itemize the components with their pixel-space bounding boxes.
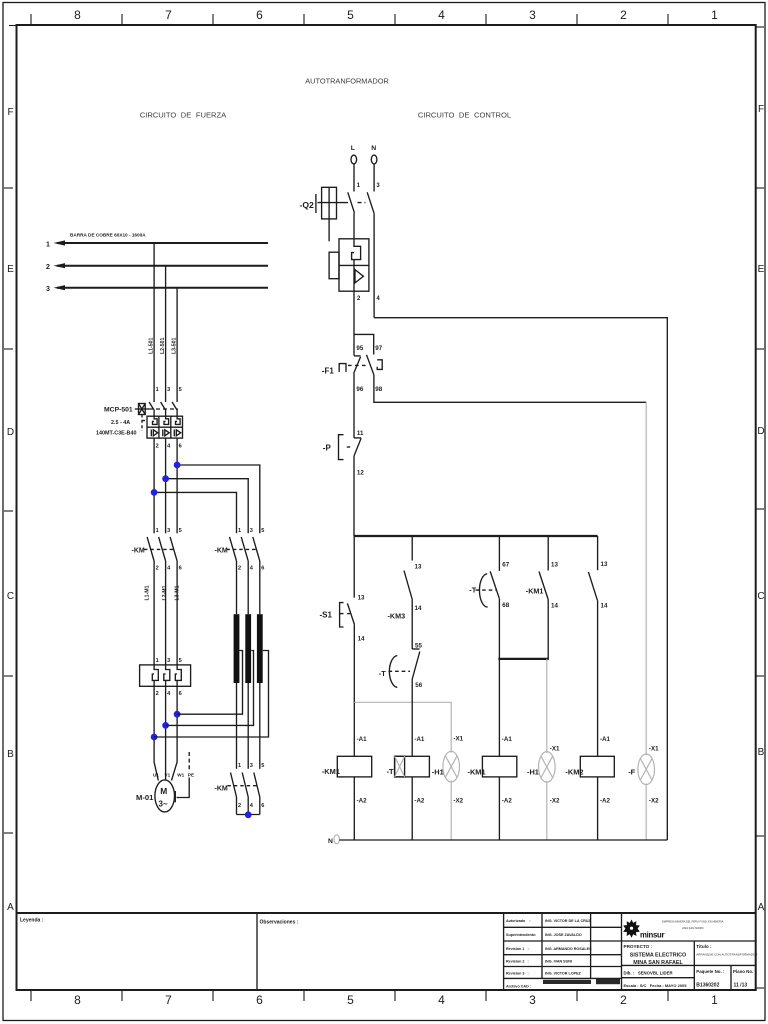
svg-text:L2-M1: L2-M1 [162, 585, 168, 600]
svg-text:-A1: -A1 [600, 736, 611, 743]
contactor -KM right blades [227, 537, 260, 561]
svg-text:3: 3 [167, 387, 170, 393]
svg-text:1: 1 [156, 528, 159, 534]
wire S1 to KM1 coil [353, 624, 355, 756]
breaker MCP-501 trip units box [147, 416, 183, 438]
svg-text:-X1: -X1 [453, 736, 463, 743]
svg-text:1: 1 [156, 387, 159, 393]
svg-text:M: M [160, 786, 167, 796]
svg-text:1: 1 [711, 993, 718, 1007]
svg-text:-A2: -A2 [414, 798, 425, 805]
svg-text:95: 95 [356, 345, 363, 352]
selector switch -S1 [320, 536, 366, 643]
wire P to control bus [353, 456, 355, 536]
svg-text:D: D [757, 426, 764, 437]
PSU block [329, 239, 369, 291]
contactor -KM star pins 2 4 6 [238, 803, 264, 809]
svg-text:Superintendente:: Superintendente: [506, 933, 536, 937]
motor M-01 [136, 780, 175, 812]
svg-text:CIRCUITO DE FUERZA: CIRCUITO DE FUERZA [140, 111, 227, 120]
wire MCP to KM pole3 [176, 438, 178, 533]
svg-text:5: 5 [179, 387, 182, 393]
svg-text:4: 4 [438, 8, 445, 22]
gray feeder to lamp F [645, 402, 647, 755]
lamp -H1 [432, 736, 464, 841]
wire KM3 contact to T contact [411, 600, 413, 649]
svg-text:E: E [7, 264, 14, 275]
svg-text:L3-M1: L3-M1 [174, 585, 180, 600]
svg-text:-H1: -H1 [432, 767, 444, 776]
F1 top jog wire [354, 334, 374, 354]
wire MCP to KM pole2 [165, 438, 167, 533]
svg-text:2: 2 [238, 566, 241, 572]
svg-text:13: 13 [415, 564, 422, 571]
overload relay pins 2 4 6 [156, 691, 182, 697]
svg-text:3: 3 [250, 528, 253, 534]
svg-text:V1: V1 [165, 773, 171, 778]
svg-text:2: 2 [238, 803, 241, 809]
contactor -KM left blades [144, 537, 177, 561]
pin labels 1 3 5 above MCP [156, 387, 182, 393]
MINSUR logo [623, 920, 723, 940]
svg-text:5: 5 [347, 993, 354, 1007]
svg-text:1: 1 [46, 242, 50, 249]
svg-text:13: 13 [601, 561, 608, 568]
svg-text:MCP-501: MCP-501 [104, 407, 133, 414]
svg-text:3: 3 [529, 993, 536, 1007]
svg-text:97: 97 [375, 345, 382, 352]
svg-text:-A2: -A2 [357, 798, 368, 805]
contactor -KM right pins 2 4 6 [238, 566, 264, 572]
svg-text:1: 1 [711, 8, 718, 22]
wire overload to motor W1 [172, 686, 178, 780]
svg-text:PE: PE [188, 773, 194, 778]
wire PSU to F1 [353, 291, 355, 334]
svg-text:L1-M1: L1-M1 [144, 585, 150, 600]
svg-text:68: 68 [502, 602, 509, 609]
wire bar2 to star KM [247, 683, 249, 769]
timer contact -T 55-56 [379, 643, 423, 690]
svg-text:3: 3 [167, 658, 170, 664]
contactor -KM right pins 1 3 5 [238, 528, 264, 534]
svg-text:Leyenda :: Leyenda : [20, 918, 44, 924]
svg-text:56: 56 [415, 682, 422, 689]
wire overload to motor V1 [165, 686, 167, 780]
busbar 2 [46, 263, 268, 271]
svg-text:3: 3 [167, 528, 170, 534]
wire KM to overload pole1 [153, 561, 155, 665]
svg-text:L2-501: L2-501 [160, 337, 166, 354]
svg-text:ING. IVAN SUNI: ING. IVAN SUNI [545, 960, 572, 964]
svg-text:Dib. : SENOVBL LIDER: Dib. : SENOVBL LIDER [624, 971, 674, 976]
svg-text:B1360202: B1360202 [696, 983, 719, 989]
branch wire to right KM pole3 [166, 479, 249, 534]
contact -KM3 13-14 [388, 536, 422, 621]
svg-text:PROYECTO :: PROYECTO : [624, 944, 653, 949]
svg-text:7: 7 [165, 993, 172, 1007]
wire N pole down [373, 213, 375, 318]
pin labels 2 4 6 below MCP [156, 444, 182, 450]
svg-text:6: 6 [179, 691, 182, 697]
svg-text:-X1: -X1 [649, 746, 659, 753]
breaker -Q2 [300, 187, 375, 241]
svg-text:-KM: -KM [215, 548, 228, 555]
breaker MCP-501 labels [96, 407, 136, 437]
svg-text:AUTOTRANFORMADOR: AUTOTRANFORMADOR [305, 77, 389, 86]
svg-text:14: 14 [415, 605, 422, 612]
svg-text:Plano No. :: Plano No. : [733, 969, 756, 974]
svg-text:1: 1 [156, 658, 159, 664]
svg-text:11 /13: 11 /13 [734, 983, 748, 989]
svg-text:Archivo CAD :: Archivo CAD : [506, 985, 531, 989]
svg-text:-A2: -A2 [502, 798, 513, 805]
wire N horizontal to right [374, 318, 667, 840]
svg-text:ARRANQUE CON AUTOTRANSFORMADOR: ARRANQUE CON AUTOTRANSFORMADOR [696, 953, 758, 957]
svg-text:-KM: -KM [215, 786, 228, 793]
svg-text:14: 14 [601, 603, 608, 610]
svg-text:140MT-C3E-B40: 140MT-C3E-B40 [96, 431, 136, 437]
gray wire link to lamp H1-2 [546, 659, 548, 753]
svg-text:E: E [758, 264, 765, 275]
svg-text:BARRA DE COBRE 60X10 - 1600A: BARRA DE COBRE 60X10 - 1600A [70, 233, 146, 238]
svg-text:-KM: -KM [132, 548, 145, 555]
svg-text:-A2: -A2 [600, 798, 611, 805]
wire L to Q2 [353, 164, 355, 192]
tap wire bar3 to wire1 [154, 651, 268, 738]
wire 68 down to KM1 coil 2 [498, 599, 500, 757]
terminal N bottom [328, 835, 339, 845]
title block [17, 913, 756, 990]
wire L2-501 [165, 266, 167, 402]
svg-text:98: 98 [375, 386, 382, 393]
coil -KM1 second [468, 736, 517, 840]
control bus [354, 535, 598, 537]
wire Q2 to PSU block [353, 213, 355, 239]
timer contact -T 67-68 [469, 536, 509, 609]
svg-text:5: 5 [261, 528, 264, 534]
wire L3-501 [176, 288, 178, 402]
neutral bus N [339, 839, 667, 841]
autotransformer winding bar2 [245, 614, 251, 683]
svg-text:N: N [371, 145, 376, 152]
svg-text:Observaciones :: Observaciones : [260, 920, 299, 926]
wire KM right to autotransformer bar3 [259, 561, 261, 614]
svg-text:2: 2 [620, 8, 627, 22]
svg-text:6: 6 [261, 566, 264, 572]
overload relay box [140, 665, 191, 686]
breaker MCP-501 pole 1 blade [149, 402, 154, 416]
wire KM to overload pole3 [176, 561, 178, 665]
svg-text:F: F [7, 107, 13, 118]
svg-text:3: 3 [46, 286, 50, 293]
svg-text:1: 1 [238, 763, 241, 769]
wire bar3 to star KM [259, 683, 261, 769]
svg-text:Escala : S/C Fecha : MAYO 20: Escala : S/C Fecha : MAYO 2005 [624, 983, 688, 988]
svg-text:96: 96 [356, 386, 363, 393]
motor terminal labels U1 V1 W1 [153, 773, 185, 778]
svg-text:D: D [7, 427, 14, 438]
lamp -H1 second [527, 746, 560, 841]
overload contact -F1 [322, 334, 383, 393]
wire KM1 contact to link [547, 600, 549, 659]
wire KM right to autotransformer bar2 [247, 561, 249, 614]
terminal L [351, 145, 357, 164]
svg-text:7: 7 [165, 8, 172, 22]
junction dot lower wire3 [174, 711, 181, 718]
svg-text:-A1: -A1 [357, 736, 368, 743]
star point bus [237, 797, 260, 815]
terminal N top [371, 145, 377, 164]
svg-text:A: A [758, 902, 765, 913]
branch wire to right KM pole5 [177, 465, 260, 533]
junction dot wire2 [162, 475, 169, 482]
svg-text:Autorizado :: Autorizado : [506, 919, 531, 923]
svg-text:12: 12 [357, 470, 364, 477]
svg-text:11: 11 [357, 430, 364, 437]
svg-text:-A1: -A1 [502, 736, 513, 743]
svg-text:-Q2: -Q2 [300, 200, 315, 210]
svg-text:2: 2 [46, 264, 50, 271]
junction dot lower wire1 [151, 734, 158, 741]
wire MCP to KM pole1 [153, 438, 155, 533]
gray branch to lamp H1 [354, 702, 451, 752]
wire overload to motor U1 [154, 686, 158, 780]
svg-text:8: 8 [74, 8, 81, 22]
signature table [504, 913, 622, 990]
svg-text:13: 13 [551, 562, 558, 569]
contactor -KM star blades [228, 773, 260, 798]
svg-text:Revision 3 :: Revision 3 : [506, 972, 529, 976]
svg-text:8: 8 [74, 993, 81, 1007]
wire 98 to lamp F feeder [374, 375, 646, 402]
svg-text:-X2: -X2 [453, 798, 463, 805]
svg-text:Paquete No. :: Paquete No. : [696, 969, 725, 974]
busbar 3 [46, 285, 268, 293]
svg-text:ING. VICTOR LOPEZ: ING. VICTOR LOPEZ [545, 972, 582, 976]
wire T contact to T coil [411, 679, 413, 757]
svg-text:-P: -P [323, 444, 332, 453]
coil -T [387, 736, 430, 840]
svg-text:14: 14 [551, 603, 558, 610]
svg-text:-A1: -A1 [414, 736, 425, 743]
svg-text:ING. ARMANDO ROSALES: ING. ARMANDO ROSALES [545, 947, 592, 951]
svg-text:2.5 - 4A: 2.5 - 4A [111, 420, 130, 426]
breaker MCP-501 pole 3 blade [172, 402, 177, 416]
wire branch E to KM2 coil [597, 600, 599, 756]
svg-text:B: B [758, 747, 765, 758]
svg-text:L3-501: L3-501 [172, 337, 178, 354]
junction dot wire1 [151, 489, 158, 496]
svg-text:C: C [757, 591, 764, 602]
svg-text:-S1: -S1 [320, 611, 333, 620]
svg-text:B: B [7, 749, 14, 760]
overload relay pins 1 3 5 [156, 658, 182, 664]
svg-text:W1: W1 [177, 773, 184, 778]
svg-text:A: A [7, 902, 14, 913]
coil -KM2 [565, 736, 614, 840]
wire KM right to autotransformer bar1 [236, 561, 238, 614]
contact -KM1 13-14 [526, 536, 559, 610]
svg-text:CIRCUITO DE CONTROL: CIRCUITO DE CONTROL [418, 111, 511, 120]
junction dot wire3 [174, 462, 181, 469]
contactor -KM star pins 1 3 5 [238, 763, 264, 769]
svg-text:5: 5 [179, 528, 182, 534]
svg-text:Revision 1 :: Revision 1 : [506, 947, 529, 951]
wire N to Q2 [373, 164, 375, 192]
svg-text:-F: -F [628, 767, 635, 776]
autotransformer winding bar3 [257, 614, 263, 683]
PE conductor [175, 752, 194, 802]
busbar 1 [46, 240, 268, 248]
svg-text:M-01: M-01 [136, 793, 154, 802]
breaker MCP-501 pole 2 blade [161, 402, 166, 416]
svg-text:-KM1: -KM1 [526, 587, 544, 596]
drawing data box [622, 965, 757, 990]
svg-text:Revision 2 :: Revision 2 : [506, 960, 529, 964]
svg-text:LIMA SAN ISIDRO: LIMA SAN ISIDRO [682, 926, 704, 930]
wire bar1 to star KM [236, 683, 238, 769]
autotransformer winding bar1 [234, 614, 240, 683]
svg-text:-X1: -X1 [550, 746, 560, 753]
lamp -F [628, 746, 659, 841]
svg-text:C: C [7, 591, 14, 602]
svg-text:13: 13 [358, 595, 365, 602]
svg-text:2: 2 [156, 566, 159, 572]
svg-text:ING. JOSE ZAVALDO: ING. JOSE ZAVALDO [545, 933, 582, 937]
svg-text:minsur: minsur [640, 931, 664, 940]
svg-text:6: 6 [256, 993, 263, 1007]
tap wire bar2 to wire2 [166, 651, 254, 726]
svg-text:L1-501: L1-501 [149, 337, 155, 354]
svg-text:U1: U1 [153, 773, 159, 778]
svg-text:-T: -T [379, 669, 386, 678]
link wire between branches [498, 658, 549, 660]
svg-text:Titulo :: Titulo : [696, 944, 712, 949]
breaker MCP-501 operator [135, 404, 178, 432]
svg-text:5: 5 [179, 658, 182, 664]
contactor -KM left pins 1 3 5 [156, 528, 182, 534]
svg-text:-X2: -X2 [550, 798, 560, 805]
wire KM to overload pole2 [165, 561, 167, 665]
svg-text:2: 2 [620, 993, 627, 1007]
tap wire bar1 to wire3 [177, 651, 242, 715]
project box [622, 941, 759, 990]
svg-text:-T: -T [387, 767, 394, 776]
contact 13-14 branch E [588, 536, 608, 610]
svg-text:L: L [351, 145, 355, 152]
svg-text:3~: 3~ [159, 800, 168, 809]
svg-text:N: N [328, 838, 333, 845]
svg-text:EMPRESA MINERA DEL PERU FUND.: EMPRESA MINERA DEL PERU FUND. EN MINERIA [662, 920, 724, 924]
svg-text:5: 5 [347, 8, 354, 22]
svg-text:2: 2 [156, 444, 159, 450]
wire L1-501 [153, 243, 155, 402]
svg-text:3: 3 [250, 763, 253, 769]
coil -KM1 [322, 736, 372, 840]
star point junction dot [245, 811, 252, 818]
svg-text:2: 2 [156, 691, 159, 697]
svg-text:MINA SAN RAFAEL: MINA SAN RAFAEL [633, 960, 683, 966]
svg-text:6: 6 [256, 8, 263, 22]
svg-text:5: 5 [261, 763, 264, 769]
svg-text:67: 67 [502, 562, 509, 569]
svg-text:6: 6 [179, 566, 182, 572]
svg-text:-H1: -H1 [527, 767, 539, 776]
svg-text:3: 3 [529, 8, 536, 22]
svg-text:6: 6 [261, 803, 264, 809]
svg-text:-F1: -F1 [322, 367, 335, 376]
pressure switch -P [323, 430, 365, 477]
svg-text:F: F [758, 104, 764, 115]
svg-text:ING. VICTOR DE LA CRUZ: ING. VICTOR DE LA CRUZ [545, 919, 591, 923]
svg-text:14: 14 [358, 636, 365, 643]
svg-text:4: 4 [438, 993, 445, 1007]
svg-text:6: 6 [179, 444, 182, 450]
svg-text:SISTEMA ELECTRICO: SISTEMA ELECTRICO [630, 953, 686, 959]
branch wire to right KM pole1 [154, 492, 236, 533]
contactor -KM left pins 2 4 6 [156, 566, 182, 572]
svg-text:-X2: -X2 [649, 798, 659, 805]
svg-text:-KM3: -KM3 [388, 612, 406, 621]
junction dot lower wire2 [162, 722, 169, 729]
wire 96 down to P [353, 374, 355, 438]
svg-text:1: 1 [238, 528, 241, 534]
